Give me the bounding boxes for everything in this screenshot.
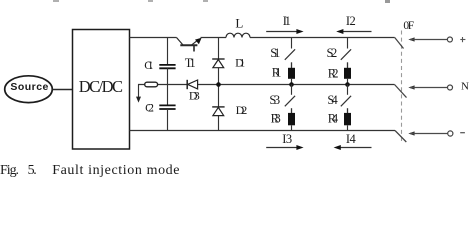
resistor R4: [344, 113, 351, 125]
wire top rail segment from converter to T1: [130, 37, 177, 39]
terminal circle row 2: [448, 85, 453, 90]
bottom rail wire: [130, 130, 396, 132]
label minus terminal: [460, 132, 465, 134]
wire R2 to middle rail: [347, 79, 349, 85]
switch S4 blade: [341, 96, 351, 107]
wire S1 to R1: [291, 62, 293, 68]
wire R3 to bottom rail: [291, 125, 293, 130]
svg-text:DC/DC: DC/DC: [79, 77, 123, 96]
fuse pill on middle rail: [145, 82, 158, 87]
contact arrowhead row 3: [408, 131, 414, 135]
wire S4 to R4: [347, 108, 349, 113]
svg-text:S1: S1: [270, 46, 280, 60]
current arrow I3: [266, 147, 298, 149]
transistor T1 emitter arrowhead: [195, 38, 202, 44]
wire S3 to R3: [291, 108, 293, 113]
switch S2 blade: [341, 49, 351, 60]
breaker blade row 1: [395, 38, 404, 49]
freewheel branch vertical wire: [218, 38, 220, 131]
contact arrowhead row 2: [408, 85, 414, 89]
wire S2 to R2: [347, 62, 349, 68]
svg-text:R1: R1: [272, 66, 282, 80]
svg-text:N: N: [461, 80, 469, 92]
switch S3 blade: [285, 96, 295, 107]
terminal circle row 3: [448, 131, 453, 136]
wire top rail segment inductor to right switch: [250, 37, 395, 39]
svg-text:S3: S3: [269, 93, 280, 107]
current arrow I2: [339, 31, 372, 33]
svg-text:I4: I4: [346, 132, 357, 146]
svg-text:Fault injection mode: Fault injection mode: [52, 163, 179, 178]
middle rail wire: [138, 84, 395, 86]
cropped text remnants top edge: [53, 0, 390, 3]
svg-text:C1: C1: [144, 58, 153, 72]
resistor R3: [288, 113, 295, 125]
svg-text:Fig.: Fig.: [0, 163, 19, 178]
label plus terminal: [460, 37, 465, 42]
DC/DC converter U1: [73, 30, 130, 150]
svg-text:L: L: [235, 16, 243, 31]
svg-text:.: .: [33, 163, 37, 178]
svg-text:Source: Source: [10, 81, 48, 93]
contact wire row 2: [410, 87, 448, 89]
capacitor branch wire from top rail: [167, 38, 169, 65]
breaker blade row 3: [395, 131, 406, 143]
switch S1 branch stub: [291, 38, 293, 49]
node junction dot middle rail branch 1: [289, 82, 294, 87]
node junction dot middle rail at freewheel branch: [216, 82, 221, 87]
svg-text:C2: C2: [145, 100, 154, 114]
svg-text:0F: 0F: [403, 20, 414, 32]
capacitor C1: [159, 65, 175, 68]
svg-text:R4: R4: [328, 111, 339, 125]
diode D2: [212, 106, 224, 108]
node junction dot middle rail branch 2: [345, 82, 350, 87]
svg-text:D2: D2: [236, 103, 248, 117]
diode D1: [212, 58, 224, 60]
contact wire row 1: [410, 39, 447, 41]
wire top rail segment T1 to inductor: [201, 37, 227, 39]
svg-text:T1: T1: [185, 56, 196, 70]
diode D3: [186, 80, 188, 89]
current arrow I4: [340, 147, 372, 149]
wire R4 to bottom rail: [347, 125, 349, 130]
contact arrowhead row 1: [408, 37, 414, 41]
contact wire row 3: [410, 133, 448, 135]
switch S1 blade: [285, 49, 295, 60]
svg-text:D1: D1: [235, 56, 245, 70]
current arrow I1: [266, 31, 298, 33]
breaker dashed link line: [401, 31, 403, 143]
wire source to converter: [52, 89, 72, 91]
resistor R2: [344, 68, 351, 79]
switch S2 branch stub: [347, 38, 349, 49]
svg-text:R2: R2: [328, 66, 339, 80]
inductor L: [226, 33, 250, 37]
svg-text:I3: I3: [282, 132, 292, 146]
wire R1 to middle rail: [291, 79, 293, 85]
svg-text:S4: S4: [327, 93, 338, 107]
wire C1 to middle node: [167, 68, 169, 105]
terminal circle row 1: [447, 37, 452, 42]
switch S4 branch stub: [347, 85, 349, 95]
transistor T1: [177, 38, 199, 52]
svg-text:I2: I2: [346, 14, 356, 28]
svg-text:D3: D3: [189, 89, 200, 103]
wire C2 to bottom rail: [167, 109, 169, 131]
svg-text:S2: S2: [327, 46, 338, 60]
midpoint down arrow: [138, 85, 140, 98]
capacitor C2: [159, 105, 175, 109]
breaker blade row 2: [395, 85, 407, 98]
switch S3 branch stub: [291, 85, 293, 95]
source ellipse: [5, 76, 53, 103]
svg-text:R3: R3: [271, 111, 281, 125]
resistor R1: [288, 68, 295, 79]
svg-text:I1: I1: [283, 14, 291, 28]
